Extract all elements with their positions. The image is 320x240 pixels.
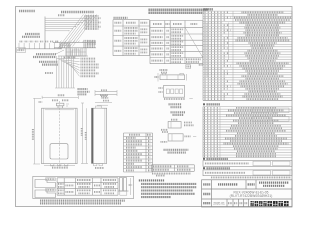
dimension chain row [19,42,60,49]
mass/noise small table [152,165,195,172]
side view body [92,106,107,163]
front view body [42,101,78,166]
page border frame [16,7,293,207]
clearance diagram: diagonal leader fan [58,15,97,50]
bottom-left box frame [33,176,134,198]
svg-text:2020.01: 2020.01 [213,201,225,205]
left note labels (2 lines) [22,34,40,37]
dim text 250 over top line [58,14,65,16]
install detail figure 2 [161,120,194,132]
side view bottom stubs and dim [94,163,105,168]
caption: side exhaust clearance figure [61,11,94,14]
top view figure [155,65,204,82]
two caption lines under box [40,201,125,204]
tolerance note line above title block [211,176,291,178]
spec table section: electrical band 2 [203,167,292,176]
bottom view figure (pipe connections) [159,86,193,115]
title block frame [202,180,292,207]
small bracket dim figure [95,91,117,93]
small dims above pipes [39,100,69,102]
left lower note labels (2 lines) [39,62,58,65]
caption: mounting place (top view) [164,150,189,153]
small texts below unit [45,58,76,74]
clearance diagram: left vertical ruler [44,17,46,50]
right small label rows near unit [87,41,96,44]
table R (options table with diagonal cell) [150,21,203,64]
pipe drop lines under unit [57,56,74,88]
front window [50,144,68,159]
tiny fragment left of tolerance note [156,175,165,177]
front view top dim line [42,96,78,99]
ground line [19,48,63,50]
wall line over unit [53,42,96,44]
mid-left note labels (2 lines) [33,50,64,57]
clearance diagram: horizontal leader lines [45,18,89,31]
mid-right label stack [84,41,96,47]
spec table section: installation [203,103,292,157]
spec table header label [204,8,214,10]
note text 2 lines top-middle [149,10,208,13]
dense ticks in unit cluster [54,44,96,56]
GL label box [17,48,26,53]
upper-right label stack [85,16,101,29]
box inner table [57,178,118,195]
diagonal leaders to lower-right labels [57,59,80,77]
table L title [114,17,128,19]
extra unit inner details [60,46,86,56]
title block row1: name cells [203,183,289,186]
bottom dim text [52,167,68,169]
hatch ticks above wall line [55,41,93,43]
lower-right label stack [81,59,99,77]
pipe-cover figure lower [35,189,56,198]
top pipe stubs [57,103,70,108]
note under small table [152,172,191,174]
unit-mm note top-left [19,10,35,12]
bullet note paragraph right of box [139,180,196,197]
flue outlet box [60,44,70,48]
unit body top-view [66,48,86,56]
spec table upper block [203,11,292,100]
side view top dims [95,95,112,105]
front view dim 460 [58,94,65,96]
table L (3 tall rows) [113,20,150,56]
front bottom pipe stubs [51,164,68,166]
svg-text:(RLVT-R7422BW004A9H21): (RLVT-R7422BW004A9H21) [230,194,273,198]
Rinnai company name (bold) [251,201,289,206]
inter-view vertical dim lines [81,103,88,164]
detail note 3 lines [78,89,90,94]
title block row3: date / scale [203,201,248,205]
title block row2: model numbers [203,190,272,198]
spec table section: electrical band 1 [203,158,292,167]
accessory parts table [124,133,153,172]
left vertical dim line [33,98,41,164]
bottom dim tick line of pipe drops [55,87,75,89]
twin flue pipes figure [118,178,132,196]
pipe-cover figure upper [35,178,56,188]
